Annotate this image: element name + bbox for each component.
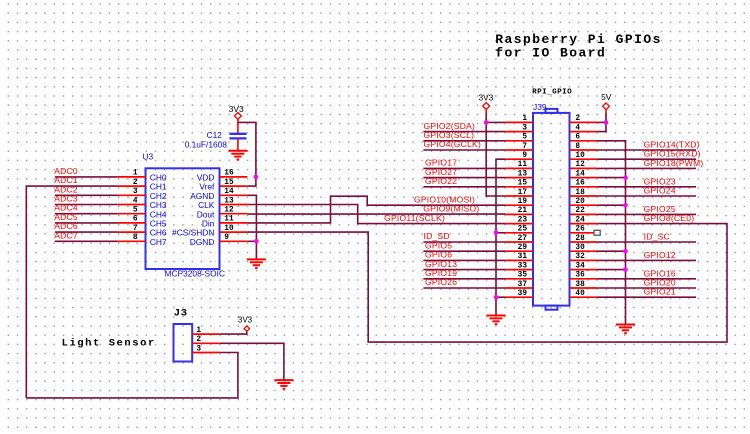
svg-text:35: 35 [518,272,528,280]
svg-text:8: 8 [575,143,580,151]
ground below left rail [487,316,506,325]
svg-text:DGND: DGND [190,237,215,247]
net label GPIO3(SCL) [424,130,475,140]
svg-text:CH7: CH7 [150,237,167,247]
svg-text:5: 5 [133,207,138,215]
svg-text:MCP3208-SOIC: MCP3208-SOIC [165,269,226,279]
svg-text:9: 9 [224,234,229,242]
wire GPIO3(SCL) [423,140,505,142]
wire 3V3 to U3 VDD and Vref [238,122,256,186]
wire GPIO20 [597,287,696,289]
wire J3 pin2 to ground [220,343,284,380]
svg-text:39: 39 [518,290,528,298]
svg-text:31: 31 [518,253,528,261]
label Light Sensor [62,337,156,349]
J39 left pin stubs [505,122,533,297]
net label ID_SD [424,231,450,241]
svg-text:32: 32 [575,253,585,261]
svg-text:3: 3 [522,124,527,132]
J3 pin numbers [196,327,201,353]
net label ADC6 [54,221,78,231]
net label GPIO22 [425,176,457,186]
svg-text:J3: J3 [174,308,188,320]
wire #CS/SHDN to GPIO8(CE0) [247,224,727,343]
svg-text:11: 11 [224,216,234,224]
IC U3 MCP3208-SOIC body [146,168,220,269]
junction at pin 14 [623,175,628,180]
wire 3V3 lead to C12 [237,119,239,133]
svg-text:15: 15 [224,179,234,187]
wire GPIO5 [423,250,505,252]
svg-text:13: 13 [518,170,528,178]
wire 3V3 rail to pins 1 and 17 [486,109,505,196]
connector J39 RPI_GPIO body [533,109,570,310]
wire GPIO14(TXD) [597,149,696,151]
wire GPIO23 [597,186,696,188]
junction at pin 34 [623,267,628,272]
value 0.1uF/1608 [185,139,228,149]
svg-text:12: 12 [224,207,234,215]
wire ADC1 [26,186,117,398]
svg-text:5V: 5V [601,92,612,102]
svg-text:38: 38 [575,281,585,289]
wire GPIO22 [423,186,505,188]
svg-text:40: 40 [575,290,585,298]
net label GPIO23 [644,176,676,186]
ground below right rail [616,325,635,334]
wire ADC7 [55,240,118,242]
net label GPIO9(MISO) [423,204,479,214]
U3 left pin numbers [133,170,138,242]
svg-text:8: 8 [133,234,138,242]
label J3 [174,308,188,320]
U3 right pin names [172,173,215,247]
net label GPIO4(GCLK) [424,139,482,149]
wire GPIO27 [423,177,505,179]
svg-text:0.1uF/1608: 0.1uF/1608 [185,139,228,149]
power symbol 3V3 (J3) [238,316,253,332]
label J39 [533,102,547,112]
svg-text:23: 23 [518,216,528,224]
wire GPIO24 [597,195,696,197]
net label ADC1 [54,175,78,185]
wire AGND/DGND to ground [247,195,256,259]
svg-text:16: 16 [224,170,234,178]
svg-text:12: 12 [575,161,585,169]
svg-text:18: 18 [575,189,585,197]
U3 left pin stubs 1-8 [118,177,146,241]
J39 right pin numbers [575,115,585,298]
svg-text:GPIO21: GPIO21 [644,287,676,297]
svg-text:J39: J39 [533,102,547,112]
wire ID_SD [423,241,505,243]
wire ground rail right of J39 [597,141,625,325]
wire ADC2 [55,194,118,196]
svg-text:ID_SC: ID_SC [644,232,670,242]
svg-text:27: 27 [518,235,528,243]
svg-text:34: 34 [575,262,585,270]
svg-text:GPIO8(CE0): GPIO8(CE0) [644,213,695,223]
net label GPIO18(PWM) [644,158,704,168]
power symbol 3V3 (C12) [229,104,244,119]
junction at pin 2 [604,120,609,125]
svg-text:10: 10 [575,152,585,160]
svg-text:GPIO26: GPIO26 [425,277,457,287]
wire GPIO19 [423,278,505,280]
svg-text:6: 6 [575,134,580,142]
svg-text:GPIO11(SCLK): GPIO11(SCLK) [384,213,445,223]
wire ground rail left of J39 [496,159,505,315]
label MCP3208-SOIC [165,269,226,279]
net label GPIO17 [425,158,457,168]
net label GPIO5 [425,240,452,250]
svg-text:GPIO4(GCLK): GPIO4(GCLK) [424,139,482,149]
title text [495,32,662,61]
svg-text:25: 25 [518,226,528,234]
svg-text:2: 2 [575,115,580,123]
svg-text:1: 1 [196,327,201,335]
wire J3 pin1 to 3V3 [220,332,247,335]
svg-text:3: 3 [133,188,138,196]
net label GPIO12 [644,250,676,260]
wire ADC5 [55,222,118,224]
svg-text:20: 20 [575,198,585,206]
junction at pin 25 [494,231,499,236]
svg-text:7: 7 [522,143,527,151]
no-connect marker pin 26 [594,230,600,235]
svg-text:22: 22 [575,207,585,215]
junction at U3 DGND [254,239,259,244]
svg-text:16: 16 [575,180,585,188]
svg-text:19: 19 [518,198,528,206]
label RPI_GPIO [532,88,572,96]
svg-text:30: 30 [575,244,585,252]
svg-text:15: 15 [518,180,528,188]
svg-text:10: 10 [224,225,234,233]
U3 left pin names CH0-CH7 [150,173,167,247]
svg-text:14: 14 [575,170,585,178]
svg-text:14: 14 [224,188,234,196]
wire Din to GPIO10(MOSI) [247,196,505,223]
net label GPIO14(TXD) [644,140,700,150]
wire GPIO21 [597,296,696,298]
wire GPIO13 [423,269,505,271]
net label GPIO2(SDA) [424,121,476,131]
connector J3 body [174,324,193,362]
svg-text:29: 29 [518,244,528,252]
ground below light sensor [274,380,293,389]
power symbol 3V3 (J39) [478,92,493,109]
wire ADC0 [55,176,118,178]
svg-text:GPIO22: GPIO22 [425,176,457,186]
U3 right pin stubs 16-9 [220,177,248,241]
svg-text:3V3: 3V3 [229,104,244,114]
svg-text:1: 1 [133,170,138,178]
capacitor C12 [230,134,247,151]
svg-text:24: 24 [575,216,585,224]
wire Dout to GPIO9(MISO) [247,213,505,215]
svg-text:GPIO18(PWM): GPIO18(PWM) [644,158,704,168]
svg-text:33: 33 [518,262,528,270]
junction at U3 VDD [254,175,259,180]
wire ID_SC [597,241,696,243]
svg-text:1: 1 [522,115,527,123]
net label GPIO15(RXD) [644,149,701,159]
wire GPIO18(PWM) [597,167,696,169]
wire GPIO17 [423,167,505,169]
net label GPIO10(MOSI) [414,194,475,204]
J3 pin stubs 1-3 [192,334,220,352]
net label ADC4 [54,203,78,213]
svg-text:3V3: 3V3 [238,316,253,325]
svg-text:Light Sensor: Light Sensor [62,337,156,349]
wire GPIO6 [423,259,505,261]
wire GPIO15(RXD) [597,158,696,160]
svg-text:3: 3 [196,345,201,353]
net label ADC3 [54,194,78,204]
svg-text:3V3: 3V3 [478,92,493,102]
U3 right pin numbers [224,170,234,242]
net label ID_SC [644,232,670,242]
net label ADC7 [54,230,78,240]
svg-text:9: 9 [522,152,527,160]
wire GPIO2(SDA) [423,131,505,133]
svg-text:5: 5 [522,134,527,142]
svg-text:4: 4 [133,197,138,205]
svg-text:U3: U3 [143,152,154,162]
junction at pin 20 [623,203,628,208]
wire CLK to GPIO11(SCLK) [247,205,505,224]
svg-text:for IO Board: for IO Board [495,46,606,61]
net label GPIO20 [644,278,676,288]
wire GPIO12 [597,259,696,261]
wire 5V rail to pins 2 and 4 [597,110,606,132]
net label GPIO27 [425,167,457,177]
wire ADC3 [55,204,118,206]
svg-text:13: 13 [224,197,234,205]
svg-text:26: 26 [575,226,585,234]
power symbol 5V [601,92,612,110]
net label GPIO13 [425,259,457,269]
wire GPIO16 [597,278,696,280]
net label ADC2 [54,184,78,194]
net label GPIO25 [644,204,676,214]
svg-text:28: 28 [575,235,585,243]
wire GPIO25 [597,213,696,215]
net label GPIO24 [644,186,676,196]
svg-text:GPIO24: GPIO24 [644,186,676,196]
J39 left pin numbers [518,115,528,298]
net label GPIO21 [644,287,676,297]
svg-text:17: 17 [518,189,528,197]
svg-text:4: 4 [575,124,580,132]
svg-text:6: 6 [133,216,138,224]
wire ADC6 [55,231,118,233]
svg-text:RPI_GPIO: RPI_GPIO [532,88,572,96]
svg-text:GPIO12: GPIO12 [644,250,676,260]
wire GPIO26 [423,287,505,289]
ground below C12 [228,151,247,160]
label C12 [207,130,223,140]
label U3 [143,152,154,162]
net label GPIO26 [425,277,457,287]
net label GPIO11(SCLK) [384,213,445,223]
junction at pin 1 [484,120,489,125]
svg-text:7: 7 [133,225,138,233]
net label GPIO19 [425,268,457,278]
net label ADC5 [54,212,78,222]
svg-text:ADC7: ADC7 [54,230,78,240]
junction at pin 30 [623,249,628,254]
svg-text:36: 36 [575,272,585,280]
wire J3 pin3 to ADC1 [26,353,238,398]
net label ADC0 [54,166,78,176]
junction at pin 39 [494,295,499,300]
ground below U3 [247,259,266,268]
svg-text:37: 37 [518,281,528,289]
wire GPIO4(GCLK) [423,149,505,151]
svg-text:11: 11 [518,161,528,169]
net label GPIO6 [425,250,452,260]
net label GPIO16 [644,268,676,278]
svg-text:21: 21 [518,207,528,215]
svg-text:2: 2 [196,336,201,344]
svg-text:2: 2 [133,179,138,187]
wire ADC4 [55,213,118,215]
J39 right pin stubs [570,122,598,297]
net label GPIO8(CE0) [644,213,695,223]
